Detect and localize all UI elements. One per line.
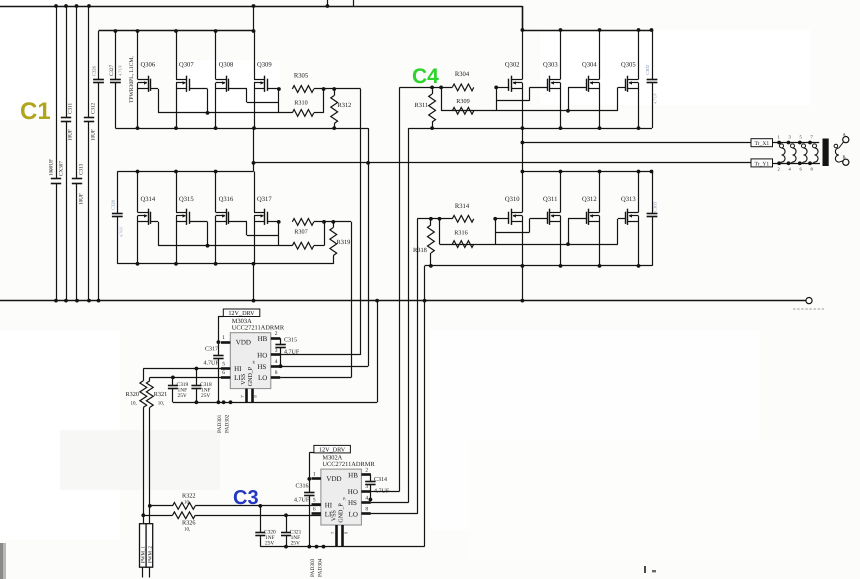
pin 8 LO (M302A) <box>361 507 370 514</box>
resistor R318 (gate pulldown) <box>413 219 434 266</box>
svg-text:C303: C303 <box>653 201 658 212</box>
wire R309 riser <box>441 87 443 110</box>
wire gate node riser B-low <box>495 219 497 244</box>
node label C3 <box>233 487 259 509</box>
svg-text:P,: P, <box>253 360 256 365</box>
pin 4 HS (M302A) <box>361 495 370 502</box>
svg-text:R321: R321 <box>154 391 167 398</box>
gate driver M302A UCC27211ADRMR body (M302A) <box>321 455 376 525</box>
svg-text:10,: 10, <box>184 527 190 533</box>
svg-text:GND_P: GND_P <box>338 503 344 523</box>
transistor Q314 <box>138 172 156 264</box>
svg-text:3: 3 <box>275 348 278 354</box>
svg-text:P,: P, <box>343 496 346 501</box>
pad PAD303 <box>310 558 316 577</box>
svg-text:C311: C311 <box>68 103 74 114</box>
connector PWM_2 <box>146 524 153 578</box>
svg-text:4.7UF: 4.7UF <box>653 92 658 104</box>
capacitor C319 1NF <box>168 377 189 402</box>
part number text TPWR30PL <box>129 56 135 103</box>
resistor R311 (gate pulldown) <box>415 87 436 128</box>
svg-text:VSS: VSS <box>331 510 337 521</box>
transistor Q303 <box>543 30 561 128</box>
svg-text:10UF: 10UF <box>79 193 85 205</box>
wire R304 left segment <box>400 86 453 90</box>
pad PAD302 <box>225 414 231 433</box>
svg-text:C314: C314 <box>374 477 387 483</box>
svg-text:1: 1 <box>222 335 225 341</box>
pad PAD301 <box>217 414 223 433</box>
transistor Q317 <box>254 172 272 264</box>
wire LO-B (M302A LO to Q310-313 gates) <box>417 219 419 514</box>
svg-text:2: 2 <box>778 167 780 172</box>
resistor R326 10 <box>143 512 195 533</box>
svg-text:2: 2 <box>365 468 368 474</box>
svg-text:Q305: Q305 <box>621 62 636 69</box>
resistor R314 <box>452 203 473 222</box>
wire M302A HO to riser <box>371 491 400 493</box>
wire Q308 gate jog <box>229 89 279 103</box>
pin 4 HS (M303A) <box>271 359 280 367</box>
wire Q311 gate jog <box>496 219 548 233</box>
svg-text:4.7UF: 4.7UF <box>118 64 123 76</box>
svg-text:B: B <box>843 155 846 160</box>
svg-text:TPWR30PL, L1CM,: TPWR30PL, L1CM, <box>129 56 135 103</box>
transistor Q306 <box>138 31 156 128</box>
svg-text:Q311: Q311 <box>543 196 557 203</box>
capacitor C311 10UF <box>61 6 74 301</box>
wire M303A HO to riser <box>280 354 360 356</box>
capacitor C303 (snubber bottom-right) <box>647 172 658 266</box>
svg-text:25V: 25V <box>291 541 300 547</box>
transistor Q313 <box>621 172 639 266</box>
wire Q303 gate jog <box>497 87 548 101</box>
terminal J1 (output ring) <box>793 298 824 310</box>
wire M303A ground line <box>173 400 377 404</box>
transistor Q309 <box>254 31 272 128</box>
wire source rail bottom-right <box>425 264 652 268</box>
pin 2 HB (M302A) <box>361 468 370 475</box>
svg-text:Q314: Q314 <box>141 196 156 203</box>
resistor R309 (parallel gate) <box>452 98 473 114</box>
svg-text:PAD303: PAD303 <box>310 558 316 577</box>
svg-text:2: 2 <box>275 331 278 337</box>
wire phase A riser to bottom-left drains <box>253 163 255 172</box>
pin 5 HI (M303A) <box>221 361 230 368</box>
wire Q316 gate jog <box>229 222 279 236</box>
wire Tr_X1 to windings <box>773 141 820 145</box>
wire HO-A (driver M303A HO to Q306-309 gates) <box>360 89 362 355</box>
pin 6 LI (M303A) <box>221 370 230 377</box>
resistor R305 <box>292 73 313 93</box>
svg-text:Q309: Q309 <box>257 62 272 69</box>
transistor Q310 <box>505 172 523 266</box>
svg-text:8: 8 <box>275 370 278 376</box>
wire ground bottom rail (net PGND) <box>0 299 806 303</box>
svg-text:6: 6 <box>222 370 225 376</box>
svg-text:Q303: Q303 <box>543 62 558 69</box>
transistor Q316 <box>216 172 234 264</box>
svg-text:R316: R316 <box>454 230 467 237</box>
svg-text:HI: HI <box>325 502 333 510</box>
svg-text:25V: 25V <box>201 393 210 399</box>
capacitor CX307 (bulk 1000UF) <box>49 6 65 301</box>
resistor R322 10 <box>150 493 196 510</box>
capacitor C318 1NF <box>191 369 212 403</box>
stray mark <box>644 566 656 573</box>
wire M302A LO to riser <box>371 513 418 515</box>
pin 3 HO (M302A) <box>361 484 370 491</box>
wire Q307 gate step <box>189 89 209 115</box>
wire HI line (M302A) <box>195 504 321 508</box>
wire LI line (M302A) <box>195 513 321 517</box>
wire M302A ground line <box>260 545 424 549</box>
wire HS-A (phase A to M303A HS) <box>368 128 370 366</box>
wire source rail bottom-left <box>117 262 333 266</box>
svg-text:VDD: VDD <box>326 475 341 483</box>
wire gate bus A-low <box>158 245 292 247</box>
pin 8 LO (M303A) <box>271 370 280 377</box>
transistor Q304 <box>582 30 600 128</box>
capacitor C320 1NF <box>255 506 276 547</box>
transistor Q312 <box>582 172 600 266</box>
wire LI line (M303A) <box>150 376 231 380</box>
transformer T1 primary winding 2 <box>789 135 797 172</box>
wire Q315 gate step <box>189 222 209 248</box>
svg-text:LO: LO <box>349 510 358 518</box>
wire HO-B (M302A HO to Q302-305 gates) <box>399 87 401 491</box>
capacitor C326 (snubber, left column) <box>92 31 104 301</box>
capacitor C302 (snubber right) <box>645 30 658 128</box>
svg-text:Q307: Q307 <box>179 62 194 69</box>
transistor Q311 <box>543 172 561 266</box>
svg-text:PAD302: PAD302 <box>225 414 231 433</box>
svg-text:Tr_X1: Tr_X1 <box>754 141 769 147</box>
resistor R313 (parallel gate) <box>292 242 313 249</box>
svg-text:4: 4 <box>275 359 278 365</box>
transformer T1 primary winding 3 <box>800 135 808 172</box>
wire LO-A (M303A LO to Q314-317 gates) <box>351 222 353 378</box>
svg-text:C317: C317 <box>205 347 218 353</box>
svg-text:HB: HB <box>258 335 268 343</box>
svg-text:HB: HB <box>348 471 358 479</box>
power symbol 12V_DRV (M302A) <box>314 445 351 453</box>
transistor Q308 <box>216 31 234 128</box>
wire R310 riser <box>314 89 324 113</box>
wire +V riser at x=253 <box>252 4 256 31</box>
resistor R310 (parallel gate) <box>292 100 313 117</box>
svg-text:4.7UF: 4.7UF <box>294 498 310 504</box>
power symbol 12V_DRV (M303A) <box>223 309 259 317</box>
transformer T1 secondary <box>834 132 849 165</box>
transformer input box Tr_Y1 <box>751 159 773 168</box>
capacitor C321 1NF <box>281 515 302 546</box>
wire stub to top edge (net PVIN sense) <box>327 0 329 6</box>
connector PWM_1 <box>140 524 147 578</box>
wire M302A HS to riser <box>371 502 409 504</box>
svg-text:1: 1 <box>778 135 780 140</box>
pin 6 LI (M302A) <box>312 507 321 514</box>
pad PAD304 <box>318 558 324 577</box>
resistor R304 <box>452 71 473 91</box>
wire R316 riser <box>439 219 441 244</box>
svg-text:C326: C326 <box>92 65 97 76</box>
gate driver M303A UCC27211ADRMR body (M303A) <box>230 318 285 388</box>
svg-text:Q306: Q306 <box>141 62 156 69</box>
wire Q302 gate lead <box>494 86 509 90</box>
svg-text:Q310: Q310 <box>505 196 520 203</box>
pin 1 VDD (M303A) <box>221 335 230 343</box>
svg-text:25V: 25V <box>265 541 274 547</box>
pin 3 HO (M303A) <box>271 348 280 355</box>
svg-text:8: 8 <box>365 507 368 513</box>
transistor Q307 <box>176 31 194 128</box>
svg-text:R319: R319 <box>337 239 351 246</box>
wire gate bus A-high <box>158 112 292 114</box>
svg-text:Q308: Q308 <box>219 62 234 69</box>
svg-text:VSS: VSS <box>241 374 247 385</box>
svg-text:C4: C4 <box>412 65 439 88</box>
wire phase B to Tr_X <box>521 128 752 144</box>
svg-text:R304: R304 <box>455 71 470 78</box>
svg-text:12V_DRV: 12V_DRV <box>319 446 346 453</box>
svg-text:Q317: Q317 <box>257 196 272 203</box>
svg-text:GND_P: GND_P <box>248 366 254 386</box>
svg-text:Q312: Q312 <box>582 196 597 203</box>
wire gate bus B-high <box>441 110 618 112</box>
svg-text:Q304: Q304 <box>582 62 597 69</box>
svg-text:6: 6 <box>313 507 316 513</box>
wire 12V_DRV feed to VDD (M302A) <box>307 453 314 481</box>
resistor R319 (gate pulldown) <box>330 222 350 264</box>
svg-text:R311: R311 <box>415 102 429 109</box>
svg-text:R326: R326 <box>182 520 195 527</box>
wire HI line (M303A) <box>143 367 230 371</box>
svg-text:C312: C312 <box>91 102 97 114</box>
wire bottom-left source to ground <box>253 264 255 301</box>
wire stub to top edge 2 <box>353 0 355 6</box>
svg-text:VDD: VDD <box>236 339 251 347</box>
svg-text:C315: C315 <box>284 338 297 344</box>
svg-text:10UF: 10UF <box>91 129 97 141</box>
transformer T1 primary winding 4 <box>811 135 819 172</box>
svg-text:PAD301: PAD301 <box>217 414 223 433</box>
svg-text:R307: R307 <box>294 229 307 236</box>
svg-text:10UF: 10UF <box>68 129 74 141</box>
svg-text:HS: HS <box>348 499 357 507</box>
wire drain rail left (top bridge A) <box>99 29 256 33</box>
wire R313 riser <box>314 222 325 246</box>
wire HS-B (phase B to M302A HS) <box>408 128 410 503</box>
svg-text:10,: 10, <box>158 401 164 407</box>
wire gate node riser A-high <box>278 89 280 113</box>
wire Q310 source to ground rail <box>522 266 524 301</box>
wire ground riser to M303A <box>377 301 379 403</box>
svg-text:C313: C313 <box>79 163 85 175</box>
wire drain rail right (top bridge B) <box>522 28 653 32</box>
svg-text:R305: R305 <box>294 73 309 80</box>
wire drain rail bottom-left <box>117 170 253 174</box>
capacitor C328 (snubber bottom-left) <box>111 172 124 264</box>
wire phase B riser to bottom-right drains <box>522 143 524 172</box>
wire Tr_Y1 to windings <box>773 161 820 165</box>
pin 5 HI (M302A) <box>312 498 321 505</box>
svg-text:Q313: Q313 <box>621 196 636 203</box>
svg-text:5: 5 <box>313 498 316 504</box>
node label C4 <box>412 65 439 88</box>
svg-text:12V_DRV: 12V_DRV <box>228 310 255 317</box>
svg-text:R309: R309 <box>456 98 469 105</box>
svg-text:PWM_2: PWM_2 <box>147 546 153 563</box>
svg-text:10,: 10, <box>131 401 137 407</box>
wire +V top rail (net VIN+) <box>0 4 524 32</box>
wire gate bus B-low <box>440 244 618 246</box>
svg-text:HI: HI <box>234 365 242 373</box>
capacitor C312 10UF <box>84 6 97 301</box>
wire R305 output <box>314 87 361 91</box>
wire Q309 gate lead <box>267 87 281 91</box>
wire gate node riser B-high <box>496 87 498 110</box>
svg-text:R314: R314 <box>455 203 470 210</box>
wire Q317 gate lead <box>267 220 280 224</box>
svg-text:R322: R322 <box>182 493 195 500</box>
capacitor C316 4.7UF <box>294 479 315 547</box>
transistor Q315 <box>176 172 194 264</box>
wire Q305 gate step <box>618 87 626 110</box>
transistor Q305 <box>621 30 639 128</box>
wire Q312 gate step <box>566 219 586 247</box>
wire gate node riser A-low <box>278 222 280 246</box>
resistor R320 10 <box>126 369 147 524</box>
svg-text:C327: C327 <box>109 64 115 76</box>
svg-text:PAD304: PAD304 <box>318 558 324 577</box>
svg-text:10,: 10, <box>184 500 190 506</box>
wire M303A LO to riser <box>280 377 351 379</box>
wire M302A ground corner <box>424 546 426 548</box>
resistor R321 10 <box>141 377 167 523</box>
node label C1 <box>20 98 51 125</box>
svg-text:HO: HO <box>348 488 358 496</box>
wire 12V_DRV feed to VDD (M303A) <box>217 316 224 344</box>
wire Q304 gate step <box>566 87 586 112</box>
svg-text:R310: R310 <box>294 100 307 107</box>
svg-text:4.7UF: 4.7UF <box>119 226 124 237</box>
svg-text:CX307: CX307 <box>59 161 65 176</box>
transistor Q302 <box>505 30 523 128</box>
capacitor C315 4.7UF (bootstrap) <box>275 338 299 369</box>
pin 2 HB (M303A) <box>271 331 280 338</box>
pin 1 VDD (M302A) <box>312 471 321 478</box>
capacitor C313 10UF <box>72 6 85 301</box>
capacitor C317 4.7UF <box>204 342 224 402</box>
svg-text:HS: HS <box>257 363 266 371</box>
svg-text:Q302: Q302 <box>505 62 520 69</box>
wire Q313 gate step <box>618 219 626 245</box>
capacitor C314 4.7UF (bootstrap) <box>365 475 390 502</box>
transformer input box Tr_X1 <box>751 139 773 148</box>
wire drain rail bottom-right <box>521 170 654 174</box>
wire Q306 gate step <box>151 89 159 113</box>
svg-text:Q316: Q316 <box>219 196 234 203</box>
wire phase B rail (top-right sources) <box>409 126 653 130</box>
resistor R316 (parallel gate) <box>452 230 473 248</box>
pins 7,9 VSS GND (M303A) <box>240 389 258 403</box>
svg-text:LO: LO <box>258 374 267 382</box>
svg-text:C328: C328 <box>111 199 116 210</box>
wire bottom-right source rail to ground <box>424 266 426 301</box>
resistor R307 <box>292 219 313 236</box>
svg-text:5: 5 <box>222 361 225 367</box>
wire ground riser to M302A <box>424 301 426 547</box>
svg-text:HO: HO <box>257 352 267 360</box>
svg-text:R312: R312 <box>338 102 352 109</box>
wire R314 left segment <box>417 217 452 221</box>
svg-text:C1: C1 <box>20 98 51 125</box>
transformer T1 primary winding 1 <box>778 135 786 172</box>
svg-text:1: 1 <box>313 471 316 477</box>
svg-text:R320: R320 <box>126 391 139 398</box>
svg-text:Q315: Q315 <box>179 196 194 203</box>
wire M303A HS to riser <box>280 366 368 368</box>
wire phase A rail (top-left sources) <box>115 126 368 130</box>
svg-text:R318: R318 <box>413 247 427 254</box>
svg-text:25V: 25V <box>178 393 187 399</box>
svg-text:4: 4 <box>365 495 368 501</box>
svg-text:Tr_Y1: Tr_Y1 <box>754 161 769 167</box>
wire R307 output <box>314 220 351 224</box>
resistor R312 (gate pulldown) <box>331 89 352 128</box>
wire Q310 gate lead <box>493 217 509 221</box>
svg-text:C302: C302 <box>645 64 650 75</box>
capacitor C327 (snubber) <box>109 31 123 128</box>
pins 7,9 VSS GND (M302A) <box>330 525 348 547</box>
wire phase A to Tr_Y <box>252 128 751 165</box>
svg-text:4.7UF: 4.7UF <box>204 361 220 367</box>
svg-text:C316: C316 <box>296 484 309 490</box>
transformer T1 core <box>823 139 829 167</box>
wire Q314 gate step <box>151 222 159 246</box>
